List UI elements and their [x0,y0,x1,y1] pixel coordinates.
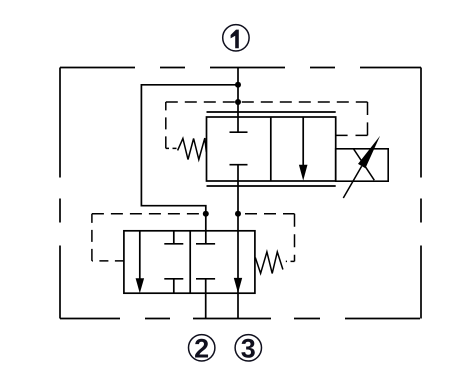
lower valve left position flow arrow [136,231,145,293]
adjustment arrow head (filled) [358,136,380,169]
pilot line (dashed) lower valve right loop to spring [238,214,295,262]
wire: main line from upper valve bottom T down through lower valve to port 3 [237,165,239,319]
junction node B (upper pilot tap) [235,99,241,105]
spring S1 (upper valve, left) [178,138,207,159]
wire: port 1 line down into upper valve (to blocked T) [237,68,239,133]
svg-text:2: 2 [194,334,209,364]
pilot line (dashed) upper valve top run [166,101,368,103]
wire: port 2 line from lower valve bottom T to boundary [205,279,207,319]
svg-text:3: 3 [241,334,256,364]
wire: branch from node below port 1, left and down to lower valve pilot node [141,85,238,244]
upper valve left position blocked port T (bottom) [230,164,248,166]
adjustment arrow shaft (rising, through box) [343,166,361,198]
outer envelope bottom edge [60,318,421,320]
port 2 circle [189,334,215,364]
junction node D (lower-right pilot tap) [235,211,241,217]
upper valve infinite-position bar (bottom) [207,185,336,187]
outer envelope top edge (dashed boundary) [60,67,421,69]
upper valve V1 body (2-position spool) [207,117,336,181]
pilot line (dashed) lower valve left loop [92,214,206,261]
junction node A (branch tap below port 1) [235,82,241,88]
lower valve V2 body (2-position spool) [124,231,255,293]
actuator diagonal (falling) [354,149,375,180]
port 3 circle [235,334,261,364]
lower valve right position flow arrow head [234,278,242,293]
outer envelope right edge [420,68,422,319]
upper valve left position blocked port T (top) [230,131,248,133]
lower valve left position blocked T (top) [164,231,183,244]
proportional solenoid / adjustment actuator box [336,136,389,198]
lower valve left position blocked T (bottom) [164,279,183,293]
junction node C (lower-left pilot tap) [203,211,209,217]
pilot line (dashed) upper valve left: spring-side drain [166,102,177,148]
upper valve right position flow arrow [299,117,308,181]
outer envelope left edge [59,68,61,319]
pilot line (dashed) upper valve right side to valve end [336,102,368,135]
port 1 circle [223,25,249,51]
lower valve right position blocked T bars [196,244,215,279]
spring S2 (lower valve, right) [255,252,283,274]
upper valve infinite-position bar (top) [207,111,336,113]
